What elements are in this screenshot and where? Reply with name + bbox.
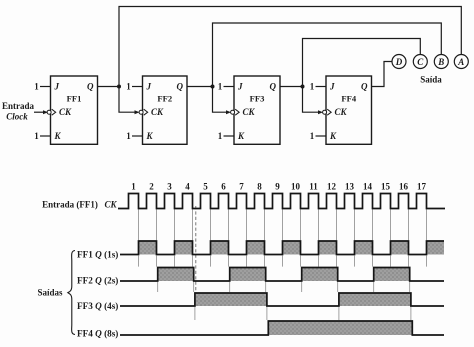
label FF1 Q (1s)	[77, 250, 118, 260]
svg-text:B: B	[437, 57, 444, 67]
wire Q1 to CK of FF2	[119, 87, 140, 115]
wire K input of FF3	[224, 135, 235, 137]
wire J input of FF2	[132, 86, 143, 88]
svg-text:14: 14	[363, 182, 373, 192]
svg-text:2: 2	[149, 182, 154, 192]
svg-text:CK: CK	[105, 200, 118, 210]
svg-text:CK: CK	[335, 107, 348, 117]
FF1 Q waveform	[120, 241, 444, 255]
wire K input of FF4	[316, 135, 327, 137]
svg-text:FF2: FF2	[157, 94, 172, 104]
label FF3 Q (4s)	[77, 301, 118, 311]
wire Q3 to output terminal C	[303, 39, 421, 87]
output terminal D	[392, 55, 406, 69]
svg-text:1: 1	[218, 82, 223, 92]
svg-text:J: J	[146, 82, 152, 92]
svg-text:FF1: FF1	[67, 94, 82, 104]
svg-text:5: 5	[203, 182, 208, 192]
wire Q3 to CK of FF4	[303, 87, 324, 115]
svg-text:Entrada: Entrada	[2, 101, 35, 111]
wire Q1 output	[98, 86, 120, 88]
label Entrada (FF1) CK	[42, 200, 117, 210]
label Saidas	[37, 288, 63, 298]
svg-text:C: C	[417, 57, 424, 67]
wire J input of FF1	[40, 86, 51, 88]
vertical guide lines at clock falling edges	[139, 209, 427, 320]
FF4 Q waveform shading	[268, 321, 412, 335]
svg-text:1: 1	[131, 182, 136, 192]
node Q3 junction	[301, 85, 305, 89]
svg-text:K: K	[146, 131, 154, 141]
svg-text:FF1 Q (1s): FF1 Q (1s)	[77, 250, 118, 260]
clock input label Entrada Clock	[2, 101, 35, 122]
label constant 1 on J input of FF3	[218, 82, 223, 92]
dashed guide line at pulse 4 falling edge	[195, 206, 197, 295]
svg-text:10: 10	[291, 182, 301, 192]
svg-text:D: D	[395, 57, 403, 67]
svg-text:12: 12	[327, 182, 337, 192]
clock waveform CK	[118, 194, 445, 209]
svg-text:A: A	[457, 57, 464, 67]
svg-text:Q: Q	[177, 82, 184, 92]
label constant 1 on K input of FF4	[310, 131, 315, 141]
label constant 1 on K input of FF3	[218, 131, 223, 141]
svg-text:17: 17	[417, 182, 427, 192]
label constant 1 on K input of FF2	[126, 131, 131, 141]
svg-text:Q: Q	[361, 82, 368, 92]
svg-text:CK: CK	[151, 107, 164, 117]
svg-text:8: 8	[257, 182, 262, 192]
svg-text:1: 1	[34, 131, 39, 141]
svg-text:J: J	[54, 82, 60, 92]
svg-text:CK: CK	[59, 107, 72, 117]
wire Q2 output	[187, 86, 213, 88]
svg-text:1: 1	[126, 82, 131, 92]
node Q1 junction	[117, 85, 121, 89]
svg-text:J: J	[237, 82, 243, 92]
label FF4 Q (8s)	[77, 329, 118, 339]
svg-text:FF4 Q (8s): FF4 Q (8s)	[77, 329, 118, 339]
svg-text:Saída: Saída	[420, 75, 442, 85]
label constant 1 on J input of FF1	[34, 82, 39, 92]
wire Q2 to CK of FF3	[213, 87, 232, 115]
svg-text:9: 9	[275, 182, 280, 192]
wire J input of FF3	[224, 86, 235, 88]
FF4 Q waveform	[120, 321, 444, 335]
wire K input of FF2	[132, 135, 143, 137]
output terminal C	[413, 55, 427, 69]
svg-text:FF2 Q (2s): FF2 Q (2s)	[77, 276, 118, 286]
clock pulse numbers 1-17	[131, 182, 426, 192]
svg-text:6: 6	[221, 182, 226, 192]
svg-text:3: 3	[167, 182, 172, 192]
wire K input of FF1	[40, 135, 51, 137]
wire clock input to CK of FF1	[34, 110, 48, 114]
wire Q2 to output terminal B	[213, 23, 442, 87]
svg-text:FF4: FF4	[341, 94, 356, 104]
svg-text:K: K	[54, 131, 62, 141]
svg-text:FF3: FF3	[250, 94, 265, 104]
svg-text:1: 1	[310, 131, 315, 141]
svg-text:16: 16	[399, 182, 409, 192]
flip-flop FF3	[231, 76, 280, 144]
flip-flop FF1	[47, 76, 97, 144]
wire J input of FF4	[316, 86, 327, 88]
label Saida	[420, 75, 442, 85]
svg-text:Clock: Clock	[6, 112, 28, 122]
node Q2 junction	[211, 85, 215, 89]
svg-text:11: 11	[309, 182, 318, 192]
wire Q3 output	[280, 86, 303, 88]
svg-text:Q: Q	[270, 82, 277, 92]
svg-text:FF3 Q (4s): FF3 Q (4s)	[77, 301, 118, 311]
svg-text:4: 4	[185, 182, 190, 192]
svg-text:J: J	[329, 82, 335, 92]
svg-text:1: 1	[218, 131, 223, 141]
svg-text:13: 13	[345, 182, 355, 192]
output terminal B	[434, 55, 448, 69]
svg-text:Entrada (FF1): Entrada (FF1)	[42, 200, 98, 210]
wire Q1 to output terminal A	[119, 7, 461, 87]
svg-text:15: 15	[381, 182, 391, 192]
label constant 1 on J input of FF2	[126, 82, 131, 92]
FF2 Q waveform shading	[158, 268, 410, 282]
svg-text:1: 1	[34, 82, 39, 92]
label FF2 Q (2s)	[77, 276, 118, 286]
svg-text:1: 1	[126, 131, 131, 141]
svg-text:1: 1	[310, 82, 315, 92]
flip-flop FF4	[323, 76, 372, 144]
label constant 1 on K input of FF1	[34, 131, 39, 141]
output terminal A	[454, 55, 468, 69]
svg-text:K: K	[329, 131, 337, 141]
svg-text:K: K	[237, 131, 245, 141]
svg-text:CK: CK	[243, 107, 256, 117]
label constant 1 on J input of FF4	[310, 82, 315, 92]
FF1 Q waveform shading	[139, 241, 445, 255]
flip-flop FF2	[139, 76, 187, 144]
FF2 Q waveform	[120, 268, 444, 282]
svg-text:Q: Q	[87, 82, 94, 92]
FF3 Q waveform	[120, 293, 444, 306]
brace for Saidas outputs	[68, 251, 75, 335]
wire Q4 to output terminal D	[372, 62, 393, 87]
svg-text:7: 7	[239, 182, 244, 192]
FF3 Q waveform shading	[195, 293, 411, 306]
svg-text:Saídas: Saídas	[37, 288, 63, 298]
